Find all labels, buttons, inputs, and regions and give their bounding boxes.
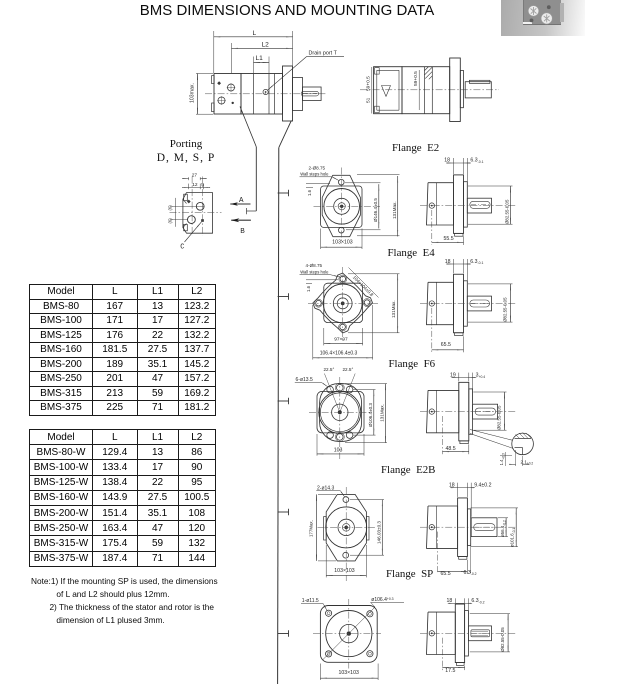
svg-text:131Max.: 131Max. [380,404,385,422]
SP bolt hole [326,651,332,657]
svg-text:65.5: 65.5 [441,342,451,348]
SP bolt hole [326,610,332,616]
svg-text:131Max.: 131Max. [392,201,397,219]
F6 detail balloon [470,430,533,455]
drain port circle [263,89,268,94]
svg-text:ø101.6-0.1: ø101.6-0.1 [510,528,516,547]
flange E2B side view [427,498,498,559]
svg-text:18: 18 [444,158,450,164]
svg-text:Wall steps hole: Wall steps hole [300,269,329,274]
flange E4 side view [427,274,492,335]
svg-text:(6): (6) [168,205,173,211]
svg-text:Ø106.4±0.3: Ø106.4±0.3 [368,403,373,427]
svg-text:Ø82.55-0.05: Ø82.55-0.05 [503,297,508,322]
main motor side view [205,66,326,121]
svg-text:103×103: 103×103 [332,240,352,246]
svg-text:22.5°: 22.5° [324,367,335,372]
svg-text:1.6: 1.6 [306,285,311,292]
flange F6 side view [427,382,498,443]
svg-text:Ø146.4±0.5: Ø146.4±0.5 [373,198,378,222]
svg-text:Wall steps hole: Wall steps hole [300,172,329,177]
svg-text:146.03±0.3: 146.03±0.3 [377,521,382,544]
flange pointer tick y=401 [278,400,289,402]
SP spline lines [472,630,489,632]
leader to flange variants [279,120,292,147]
svg-text:48.5: 48.5 [446,446,456,452]
flange E2 front view [321,175,362,236]
svg-text:59+0.5: 59+0.5 [366,76,372,91]
svg-text:12: 12 [192,182,198,188]
flange pointer tick y=633.5 [278,633,289,635]
svg-text:1.4+0.3: 1.4+0.3 [499,453,505,465]
svg-text:177Max.: 177Max. [309,520,314,537]
title [0,2,574,19]
dimension table 2 [29,429,216,567]
svg-text:Ø82.55-0.05: Ø82.55-0.05 [497,405,502,430]
svg-text:106.4×106.4±0.3: 106.4×106.4±0.3 [320,350,358,356]
svg-text:Drain port T: Drain port T [309,51,338,57]
svg-text:3+0.4: 3+0.4 [476,372,486,378]
svg-text:55.5: 55.5 [444,236,454,242]
product photo (top right) [501,0,585,36]
svg-text:103×103: 103×103 [334,568,354,574]
flange SP side view [427,604,492,665]
svg-text:ø56.4-0.2: ø56.4-0.2 [500,520,506,537]
leader to porting section [240,107,256,147]
svg-text:6.3-0.2: 6.3-0.2 [464,570,477,576]
flange F6 front view [317,383,364,441]
svg-text:22.5°: 22.5° [343,367,354,372]
svg-text:59+0.5: 59+0.5 [413,71,419,86]
svg-text:6.3-0.2: 6.3-0.2 [471,598,484,604]
svg-text:97×97: 97×97 [334,337,348,343]
SP bolt hole [367,611,373,617]
svg-text:51: 51 [366,97,372,103]
svg-text:1.6: 1.6 [307,189,312,196]
flange SP front view [320,606,377,663]
svg-text:103: 103 [334,448,343,454]
flange pointer tick y=193 [278,192,289,194]
svg-text:L: L [253,30,257,37]
flange E2 side view [427,175,492,236]
svg-text:L2: L2 [262,42,270,49]
svg-text:104×104±0.8: 104×104±0.8 [352,275,375,298]
svg-text:103max.: 103max. [190,83,196,103]
flange E4 front view [313,273,373,333]
porting heading [146,138,226,150]
notes [31,575,218,627]
svg-text:4-Ø8.75: 4-Ø8.75 [306,263,323,268]
svg-text:6.3-0.1: 6.3-0.1 [470,158,483,164]
svg-text:Ø82.55-0.05: Ø82.55-0.05 [505,199,510,224]
svg-text:27: 27 [192,173,198,179]
svg-text:Ø82.55-0.05: Ø82.55-0.05 [500,627,505,652]
flange pointer tick y=296.5 [278,296,289,298]
porting face detail [183,193,213,234]
svg-text:103×103: 103×103 [339,670,359,676]
svg-text:(6): (6) [168,218,173,224]
porting left dims [175,198,177,227]
svg-text:65.5: 65.5 [441,571,451,577]
svg-text:C: C [180,244,184,252]
flange section labels [392,142,439,154]
screw heads [501,0,587,37]
svg-text:L1: L1 [256,55,264,62]
svg-text:2-Ø8.75: 2-Ø8.75 [309,165,326,170]
second motor side view [360,58,499,122]
svg-text:9.4±0.2: 9.4±0.2 [474,483,491,489]
flange pointer tick y=512 [278,511,289,513]
E2B pilot step [467,509,470,546]
svg-text:B: B [240,228,245,236]
svg-text:131Max.: 131Max. [391,300,396,318]
flange E2B front view [324,494,369,561]
svg-text:6.3-0.1: 6.3-0.1 [470,259,483,265]
SP bolt hole [367,651,373,657]
dimension table 1 [29,284,216,416]
svg-text:17.5: 17.5 [445,668,455,674]
